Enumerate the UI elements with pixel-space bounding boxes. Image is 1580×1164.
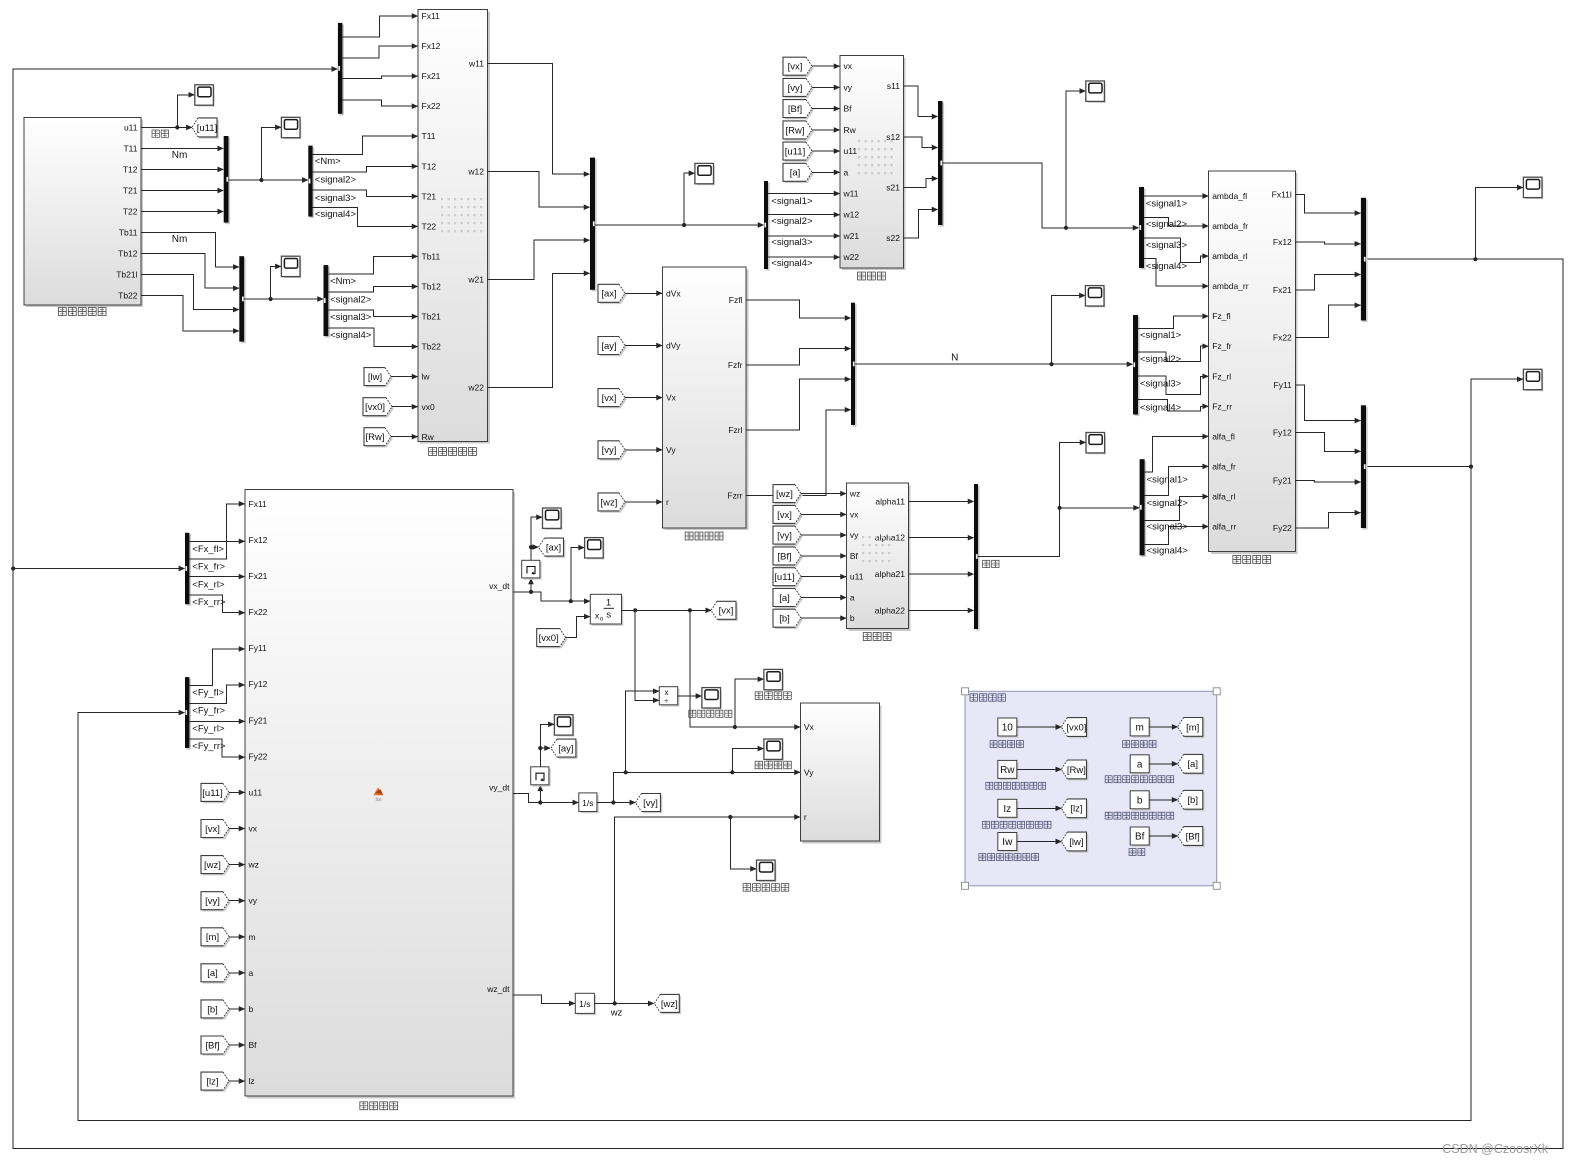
wire [u11] to side-slip block (801, 576, 846, 578)
svg-text:wz: wz (849, 489, 860, 499)
from tag [vx] vertical-load (600, 390, 627, 408)
scope s signals (1086, 81, 1106, 103)
svg-text:Fz_rr: Fz_rr (1212, 401, 1232, 411)
junction T rail (259, 178, 263, 182)
svg-text:[vy]: [vy] (643, 798, 658, 809)
junction r rail scope (728, 815, 732, 819)
from tag [vy] slip (785, 80, 814, 98)
wire ambda demux out3 to tire (1144, 238, 1208, 263)
constant Rw (1000, 762, 1019, 780)
from tag [vy] body (203, 894, 231, 912)
from tag [vx0] integrator (539, 630, 568, 648)
demux Tb signals (325, 267, 330, 338)
subsystem 侧偏角 (side slip angle) (849, 485, 911, 630)
wire Fzrl to Fz mux (746, 379, 850, 430)
svg-text:<signal2>: <signal2> (771, 216, 813, 227)
svg-text:<signal4>: <signal4> (1140, 402, 1182, 413)
from tag [lz] body (203, 1074, 231, 1092)
wire [u11] to body block (229, 791, 245, 793)
svg-text:<signal1>: <signal1> (771, 196, 813, 207)
svg-text:ambda_rl: ambda_rl (1212, 251, 1248, 261)
wire Vx rail to scope (735, 679, 764, 727)
label 纵向速度 (755, 692, 763, 700)
svg-text:[ay]: [ay] (601, 341, 616, 352)
svg-text:Tb21l: Tb21l (116, 270, 137, 280)
wire rate block to ay junction (540, 748, 550, 767)
wire alfa demux out1 to tire (1145, 436, 1209, 472)
wire [a] to side-slip block (801, 597, 846, 599)
wire Fzrr to Fz mux (746, 410, 850, 496)
wire N rail (Fz mux to Fz demux) (855, 363, 1133, 365)
goto tag [lw] panel (1063, 834, 1088, 853)
svg-text:ambda_rr: ambda_rr (1212, 281, 1249, 291)
svg-text:alfa_rl: alfa_rl (1212, 492, 1235, 502)
svg-text:[Rw]: [Rw] (366, 432, 385, 443)
wire [Rw] to slip block (812, 129, 840, 131)
svg-text:Bf: Bf (249, 1040, 258, 1050)
label 侧向速度 (755, 761, 763, 769)
wire w21 to w mux (488, 240, 590, 279)
scope N signals (1085, 286, 1105, 308)
svg-text:Fy21: Fy21 (249, 715, 268, 725)
goto tag [wz] (656, 996, 681, 1014)
wire w11 to w mux (488, 64, 590, 175)
svg-text:vy: vy (850, 530, 859, 540)
wire [vy] to slip block (812, 86, 840, 88)
wire w mux to w demux (595, 224, 764, 226)
scope ax (543, 508, 563, 530)
from tag [ay] vertical-load (600, 338, 627, 356)
wire s rail to scope (1066, 91, 1085, 228)
svg-text:[lw]: [lw] (1069, 837, 1083, 848)
svg-text:Fz_fr: Fz_fr (1212, 341, 1232, 351)
wire Fy21 to Fy mux (1295, 480, 1360, 482)
wire s11 to s mux (903, 86, 937, 117)
wire T demux out4 to wheel-speed block (313, 208, 418, 227)
svg-text:Rw: Rw (422, 432, 435, 442)
svg-text:b: b (249, 1004, 254, 1014)
svg-text:vy_dt: vy_dt (489, 782, 510, 792)
wire vy_dt output (513, 793, 578, 802)
svg-text:[wz]: [wz] (204, 860, 221, 871)
svg-text:s21: s21 (886, 183, 900, 193)
wire Tb demux out2 to wheel-speed block (328, 287, 417, 292)
wire [lw] to wheel block (391, 376, 418, 378)
svg-text:<signal4>: <signal4> (330, 330, 372, 341)
wire s21 to s mux (903, 179, 937, 188)
svg-text:[wz]: [wz] (776, 489, 793, 500)
svg-text:[a]: [a] (779, 593, 790, 604)
svg-text:b: b (1137, 795, 1143, 806)
junction Vy rail scope (730, 770, 734, 774)
svg-text:<Fx_rl>: <Fx_rl> (192, 579, 225, 590)
from tag [wz] body (203, 857, 231, 875)
svg-text:Tb22: Tb22 (422, 342, 442, 352)
wire w demux out4 to slip block (768, 256, 840, 258)
svg-text:Tb11: Tb11 (119, 228, 138, 238)
svg-text:Bf: Bf (1135, 832, 1145, 843)
wire Fx11l to Fx mux (1295, 195, 1360, 214)
svg-text:w22: w22 (467, 383, 484, 393)
svg-text:<signal3>: <signal3> (1140, 378, 1182, 389)
wire alpha12 to alpha mux (909, 537, 974, 539)
wire u11 driver to goto (141, 126, 192, 128)
svg-text:<signal1>: <signal1> (1147, 474, 1189, 485)
label 车辆参数 title (970, 694, 977, 701)
goto tag [m] panel (1179, 719, 1204, 738)
svg-text:vx_dt: vx_dt (489, 581, 510, 591)
goto tag [vy] (637, 795, 662, 813)
wire Fx body demux out4 (to Fx22) (189, 595, 244, 613)
svg-text:Fy22: Fy22 (249, 751, 268, 761)
wire Fzfl to Fz mux (746, 300, 850, 318)
svg-text:s12: s12 (886, 132, 900, 142)
svg-text:[wz]: [wz] (661, 999, 678, 1010)
svg-text:fcn: fcn (375, 797, 382, 802)
demux T signals (310, 147, 314, 218)
scope Tb signals (281, 256, 301, 278)
svg-text:<signal4>: <signal4> (771, 258, 813, 269)
svg-text:alpha22: alpha22 (875, 605, 906, 615)
svg-text:Fzrr: Fzrr (727, 490, 742, 500)
wire ax junction to scope (531, 517, 542, 547)
wire rate block up to ax junction (531, 547, 538, 560)
from tag [lw] (366, 369, 393, 387)
svg-text:[vx]: [vx] (788, 62, 803, 73)
wire [lz] to body block (229, 1080, 245, 1082)
integrator 1/s wz (575, 993, 596, 1015)
svg-text:Rw: Rw (844, 125, 857, 135)
wire Fy22 to Fy mux (1295, 513, 1360, 528)
svg-text:Tb12: Tb12 (118, 249, 138, 259)
wire a to [a] (1149, 763, 1177, 765)
junction vx out 1 (633, 608, 637, 612)
svg-text:Iw: Iw (1002, 837, 1013, 848)
wire w demux out3 to slip block (768, 235, 840, 237)
wire 1/s vy output (597, 802, 635, 804)
wire Fx12 to Fx mux (1295, 242, 1360, 244)
svg-text:Vy: Vy (666, 445, 676, 455)
svg-text:[b]: [b] (207, 1004, 218, 1015)
wire Tb12 driver to Tb mux (141, 254, 239, 289)
wire 1/s wz output (594, 1002, 653, 1004)
wire Fx loop to scope Fx (1475, 188, 1522, 260)
svg-text:Fzfr: Fzfr (728, 360, 743, 370)
label panel row Iw (979, 854, 986, 861)
from tag [vx] side-slip (775, 507, 803, 525)
wire Tb demux out3 to wheel-speed block (328, 310, 417, 317)
svg-text:s: s (606, 610, 611, 621)
svg-text:1: 1 (606, 598, 611, 609)
wire alpha rail (978, 508, 1139, 557)
svg-text:Vx: Vx (666, 393, 677, 403)
svg-text:[vy]: [vy] (788, 83, 803, 94)
wire w22 to w mux (488, 273, 590, 387)
junction w rail (682, 223, 686, 227)
wire Tb demux out1 to wheel-speed block (328, 256, 417, 274)
svg-text:1/s: 1/s (579, 999, 590, 1009)
svg-text:[lz]: [lz] (1070, 804, 1082, 815)
svg-text:<signal1>: <signal1> (1146, 199, 1188, 210)
svg-text:ambda_fr: ambda_fr (1212, 221, 1248, 231)
svg-text:w11: w11 (468, 59, 484, 69)
from tag [Bf] body (203, 1038, 231, 1056)
wire Tb mux to Tb demux (244, 298, 323, 300)
from tag [vy] side-slip (775, 528, 803, 546)
svg-text:<signal2>: <signal2> (1140, 354, 1182, 365)
svg-text:[Rw]: [Rw] (786, 125, 805, 136)
svg-text:a: a (844, 167, 849, 177)
wire s12 to s mux (903, 137, 937, 148)
svg-text:wz: wz (610, 1008, 623, 1019)
svg-text:Fx22: Fx22 (249, 607, 268, 617)
svg-text:<Fx_fr>: <Fx_fr> (192, 562, 225, 573)
svg-text:<signal3>: <signal3> (1146, 240, 1188, 251)
junction vy_dt (538, 800, 542, 804)
scope Fy output (1523, 369, 1543, 391)
wire Fx demux out2 to wheel-speed block (342, 46, 417, 58)
svg-text:Fx22: Fx22 (1273, 332, 1292, 342)
label 滑移率 (858, 272, 866, 280)
svg-text:Fy12: Fy12 (1273, 428, 1292, 438)
junction vx out 2 (688, 608, 692, 612)
svg-text:<Fy_fr>: <Fy_fr> (192, 706, 225, 717)
from tag [vx] slip (785, 59, 814, 77)
demux Fx body (187, 534, 191, 605)
svg-text:<signal4>: <signal4> (315, 209, 357, 220)
svg-text:Fzfl: Fzfl (729, 295, 743, 305)
from tag [wz] vertical-load (600, 495, 627, 513)
from tag [wz] side-slip (775, 486, 803, 504)
svg-text:[u11]: [u11] (197, 123, 217, 134)
svg-text:[wz]: [wz] (601, 497, 618, 508)
svg-text:lz: lz (249, 1076, 255, 1086)
wire ambda demux out2 to tire (1144, 218, 1208, 227)
wire [u11] to slip block (812, 150, 840, 152)
svg-text:<Fy_rl>: <Fy_rl> (192, 723, 225, 734)
wire alfa demux out2 to tire (1145, 466, 1209, 495)
wire wz to r rail (615, 817, 800, 1003)
wire [vx] to side-slip block (801, 513, 846, 515)
svg-text:T22: T22 (422, 221, 437, 231)
svg-text:[Bf]: [Bf] (777, 551, 791, 562)
wire T21 driver to T mux (141, 190, 223, 192)
wire to scope vxdt (571, 548, 584, 602)
wire Fz demux out2 to tire (1138, 346, 1208, 361)
svg-text:[ax]: [ax] (601, 289, 616, 300)
svg-text:w21: w21 (467, 275, 484, 285)
wire T mux to T demux (229, 179, 308, 181)
demux ambda (1141, 189, 1146, 270)
wire T demux out2 to wheel-speed block (313, 166, 418, 172)
mux w signals (592, 159, 597, 291)
wire wz_dt output (513, 995, 575, 1003)
goto tag [lz] panel (1063, 801, 1088, 820)
from tag [m] body (203, 930, 231, 948)
goto tag [u11] (194, 120, 219, 139)
wire w rail to scope (684, 173, 694, 225)
scope 质心侧偏角 (702, 688, 722, 710)
svg-text:a: a (249, 968, 254, 978)
svg-text:[lz]: [lz] (206, 1077, 218, 1088)
demux Fz (1135, 317, 1140, 417)
svg-text:Bf: Bf (850, 551, 859, 561)
wire T rail to scope (261, 127, 281, 180)
svg-text:[Rw]: [Rw] (1067, 765, 1086, 776)
constant Bf (1132, 829, 1151, 847)
wire Rw to [Rw] (1017, 768, 1062, 770)
svg-text:u11: u11 (124, 122, 138, 132)
mux T signals (225, 138, 230, 225)
wire Fy body demux out4 (to Fy22) (189, 739, 244, 757)
label 车轮角速度 (429, 448, 437, 456)
wire Fz demux out3 to tire (1138, 376, 1208, 394)
goto tag [vx0] panel (1063, 719, 1088, 738)
wire [vy] to side-slip block (801, 534, 846, 536)
subsystem 魔术轮胎 (magic tire) (1211, 173, 1298, 554)
svg-text:<signal2>: <signal2> (330, 294, 372, 305)
svg-text:[a]: [a] (790, 168, 801, 179)
svg-text:wz: wz (248, 860, 259, 870)
wire ambda demux out1 to tire (1144, 195, 1208, 197)
svg-text:<Nm>: <Nm> (330, 276, 356, 287)
wire u11 to scope (177, 95, 194, 128)
subsystem 车轮角速度 (wheel angular speed) (420, 12, 490, 444)
constant m (1132, 720, 1151, 738)
svg-text:[Bf]: [Bf] (1186, 831, 1200, 842)
svg-text:T11: T11 (123, 143, 137, 153)
wire Bf to [Bf] (1149, 835, 1177, 837)
scope T signals (281, 117, 301, 139)
svg-text:[b]: [b] (779, 614, 790, 625)
wire T demux out1 to wheel-speed block (313, 136, 418, 154)
svg-text:[m]: [m] (1186, 722, 1199, 733)
svg-text:dVx: dVx (666, 288, 681, 298)
svg-text:T12: T12 (422, 161, 437, 171)
svg-text:w12: w12 (843, 210, 860, 220)
svg-text:[ax]: [ax] (546, 543, 561, 554)
svg-text:<signal3>: <signal3> (315, 193, 357, 204)
svg-text:u11: u11 (850, 572, 864, 582)
demux w signals (766, 183, 770, 271)
wire Fy body demux out3 (to Fy21) (189, 720, 244, 722)
wire Fy body demux out1 (to Fy11) (189, 649, 244, 685)
svg-text:Fx12: Fx12 (1273, 237, 1292, 247)
svg-text:u11: u11 (844, 146, 858, 156)
wire [Rw] to wheel block (391, 436, 418, 438)
svg-text:Bf: Bf (844, 104, 853, 114)
wire [vx0] to integrator (566, 617, 590, 638)
svg-text:1/s: 1/s (582, 798, 593, 808)
svg-text:Tb11: Tb11 (422, 252, 441, 262)
wire Fx22 to Fx mux (1295, 305, 1360, 337)
svg-text:<signal2>: <signal2> (1146, 219, 1188, 230)
from tag [a] slip (785, 165, 814, 183)
from tag [ax] vertical-load (600, 286, 627, 304)
from tag [Bf] side-slip (775, 549, 803, 567)
wire ay junction to scope (540, 724, 554, 748)
wire [vx] to vertical-load block (625, 397, 662, 399)
wire vy_dt up to rate block (539, 785, 541, 802)
junction Vx rail scope (733, 725, 737, 729)
svg-text:CSDN @CzoosrXk: CSDN @CzoosrXk (1442, 1142, 1549, 1156)
wire 10 to [vx0] (1017, 726, 1062, 728)
wire [ax] to vertical-load block (625, 292, 662, 294)
wire [vx] to body block (229, 828, 245, 830)
rate transition block ax (522, 560, 542, 579)
from tag [vx0] wheel (365, 400, 394, 418)
wire Tb rail to scope (271, 266, 281, 299)
junction ay (538, 746, 542, 750)
wire [vy] to vertical-load block (625, 449, 662, 451)
mux Tb signals (241, 258, 246, 343)
svg-text:Fy11: Fy11 (1274, 380, 1293, 390)
svg-text:<signal3>: <signal3> (1147, 522, 1189, 533)
wire [b] to body block (229, 1008, 245, 1010)
wire product to scope (678, 695, 702, 697)
svg-text:alpha11: alpha11 (875, 496, 905, 506)
wire alpha rail to scope (1060, 442, 1086, 507)
wire [a] to body block (229, 972, 245, 974)
wire Fx loop to Fx_fl demux (13, 568, 184, 570)
junction s rail (1064, 226, 1068, 230)
svg-text:ambda_fl: ambda_fl (1212, 191, 1247, 201)
constant Iz (1000, 801, 1019, 819)
svg-text:<signal4>: <signal4> (1146, 261, 1188, 272)
svg-text:a: a (1137, 759, 1143, 770)
goto tag [a] panel (1179, 756, 1204, 775)
label panel row m (1123, 741, 1130, 748)
mux alpha signals (976, 486, 980, 631)
wire [Bf] to body block (229, 1044, 245, 1046)
svg-text:<signal1>: <signal1> (1140, 330, 1182, 341)
wire Fx body demux out1 (to Fx12) (189, 540, 244, 542)
wire integrator vx output (622, 609, 712, 611)
wire s mux to ambda demux (943, 163, 1139, 228)
svg-text:<signal2>: <signal2> (1147, 498, 1189, 509)
label panel row Rw (986, 782, 993, 789)
svg-text:Rw: Rw (1000, 765, 1015, 776)
svg-text:vx: vx (249, 824, 258, 834)
svg-text:Fy12: Fy12 (249, 679, 268, 689)
svg-text:T21: T21 (123, 186, 138, 196)
demux Fy body (187, 679, 191, 750)
svg-text:10: 10 (1002, 723, 1014, 734)
svg-text:[a]: [a] (207, 968, 218, 979)
scope Fx output (1523, 177, 1543, 199)
label panel row Bf (1129, 849, 1136, 856)
subsystem 驾驶员模型 (driver model) (26, 120, 143, 308)
wire [vx] to slip block (812, 65, 840, 67)
label 垂直载荷 (685, 532, 693, 540)
wire [Bf] to side-slip block (801, 555, 846, 557)
svg-text:Nm: Nm (172, 234, 188, 245)
wire Fzfr to Fz mux (746, 349, 850, 365)
from tag [a] side-slip (775, 590, 803, 608)
wire Fy12 to Fy mux (1295, 433, 1360, 452)
scope 横摆角速度 (757, 860, 777, 882)
wire w demux out2 to slip block (768, 214, 840, 216)
svg-text:T12: T12 (123, 164, 138, 174)
subsystem XY graph (803, 705, 882, 843)
constant a (1132, 757, 1151, 775)
svg-text:[vx]: [vx] (719, 606, 734, 617)
svg-text:Vx: Vx (804, 722, 815, 732)
wire Fy feedback loop (tire Fy mux output to body demux) (78, 467, 1471, 1121)
label panel row 10 (990, 741, 997, 748)
svg-text:Fx22: Fx22 (422, 101, 441, 111)
svg-text:Fx21: Fx21 (422, 71, 441, 81)
